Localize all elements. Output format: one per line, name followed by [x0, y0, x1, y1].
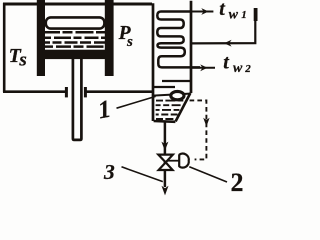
svg-text:w: w	[229, 8, 239, 23]
svg-text:1: 1	[241, 9, 247, 21]
svg-text:s: s	[126, 34, 133, 50]
svg-text:s: s	[18, 49, 26, 70]
svg-text:w: w	[233, 61, 243, 76]
svg-text:2: 2	[231, 168, 244, 196]
svg-text:3: 3	[103, 160, 115, 184]
svg-text:2: 2	[244, 63, 251, 75]
